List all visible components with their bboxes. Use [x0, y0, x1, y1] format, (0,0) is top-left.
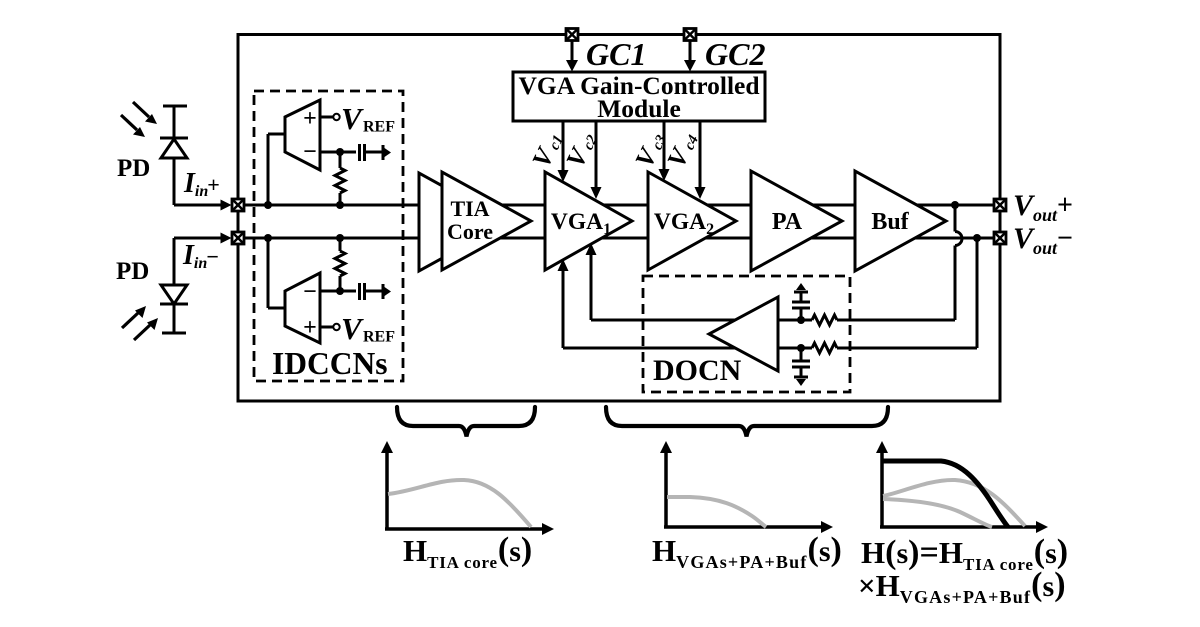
svg-text:VGA1: VGA1 [551, 209, 611, 238]
amplifier VGA1 [545, 172, 632, 270]
wire Vout+ feedback vertical with hop [955, 205, 962, 320]
VGA gain-controlled module box U-GC [513, 71, 765, 123]
wire Vc4 arrow [695, 121, 706, 199]
wire feedback to VGA1 (lower) with arrow [558, 259, 569, 348]
node A3 (R1 bottom on Iin+ line) [336, 201, 344, 209]
wire feedback to VGA1 (upper) with arrow [586, 243, 597, 320]
pad Vout- [994, 232, 1006, 244]
svg-text:Module: Module [597, 94, 681, 123]
resistor R2 (bottom) [335, 238, 345, 291]
graph 2 gray curve [667, 497, 766, 527]
pad Vout+ [994, 199, 1006, 211]
svg-text:PA: PA [772, 209, 803, 235]
node Vout+ tap [951, 201, 959, 209]
pad GC2 [684, 29, 696, 41]
svg-text:GC1: GC1 [586, 36, 646, 72]
amplifier PA [751, 171, 842, 271]
svg-text:PD: PD [116, 258, 149, 285]
svg-text:DOCN: DOCN [653, 354, 742, 387]
IDCCNs dashed box [254, 91, 403, 381]
brace 1 [397, 407, 535, 437]
light arrows into PD2 [122, 306, 158, 340]
svg-text:+: + [303, 106, 317, 132]
photodiode PD1 (top) [160, 106, 188, 205]
resistor R1 (top) [335, 152, 345, 205]
graph 3 axes [876, 441, 1048, 533]
svg-text:VGA2: VGA2 [654, 209, 714, 238]
amplifier VGA2 [648, 172, 736, 270]
node A1 (R1/C1 to U1 minus input) [336, 148, 344, 156]
graph 3 black curve [883, 461, 1008, 527]
node D1 (C3/R3 junction) [797, 316, 805, 324]
graph 3 gray curve (flat) [883, 499, 992, 527]
node B3 (R2 top on Iin- line) [336, 234, 344, 242]
svg-text:REF: REF [363, 329, 395, 346]
svg-text:+: + [303, 315, 317, 341]
amplifier TIA Core (double triangle) [419, 172, 531, 271]
node B1 (R2/C2 to U2 minus input) [336, 287, 344, 295]
svg-text:TIA: TIA [450, 196, 489, 221]
DOCN dashed box [643, 276, 850, 392]
node A2 (U1 output on Iin+ line) [264, 201, 272, 209]
pad Iin- [232, 232, 244, 244]
op-amp U1 (top OTA) [268, 100, 356, 205]
svg-text:REF: REF [363, 119, 395, 136]
capacitor C3 (top, to AC gnd up) [792, 283, 810, 320]
node VREF1 [320, 101, 395, 136]
wire DOCN top line with resistor R3 [591, 315, 955, 325]
capacitor C2 (bottom, to AC gnd) [360, 283, 392, 300]
graph 2 axes [660, 441, 833, 533]
graph 1 axes [381, 441, 554, 535]
svg-text:V: V [341, 311, 364, 346]
node Vout- tap [973, 234, 981, 242]
wire top signal line [238, 204, 1000, 207]
capacitor C4 (bottom, to AC gnd down) [792, 348, 810, 386]
svg-text:IDCCNs: IDCCNs [272, 346, 388, 381]
brace 2 [606, 407, 888, 437]
wire bottom signal line [238, 237, 1000, 240]
pad GC1 [566, 29, 578, 41]
wire GC2 arrow into module [684, 41, 696, 72]
wire DOCN bottom line with resistor R4 [563, 343, 977, 353]
svg-text:−: − [303, 139, 317, 165]
op-amp U3 (DOCN, points left) [709, 297, 778, 371]
amplifier Buf [855, 171, 946, 271]
outer chip box [238, 35, 1000, 402]
wire Vc2 arrow [591, 121, 602, 199]
pad Iin+ [232, 199, 244, 211]
node B2 (U2 output on Iin- line) [264, 234, 272, 242]
svg-text:Core: Core [447, 219, 493, 244]
wire Vc3 arrow [659, 121, 670, 181]
wire Iin+ to pad [174, 204, 228, 207]
op-amp U2 (bottom OTA) [268, 238, 356, 343]
svg-text:V: V [341, 101, 364, 136]
graph 3 gray curve (hump) [883, 480, 1025, 526]
svg-text:−: − [303, 279, 317, 305]
wire GC1 arrow into module [566, 41, 578, 72]
capacitor C1 (top, to AC gnd) [360, 144, 392, 161]
node D2 (C4/R4 junction) [797, 344, 805, 352]
svg-text:Buf: Buf [871, 209, 909, 235]
wire Vc1 arrow [558, 121, 569, 182]
node VREF2 [320, 311, 395, 346]
graph 1 gray curve [388, 480, 531, 527]
svg-text:GC2: GC2 [705, 36, 765, 72]
wire Vout- feedback vertical [976, 238, 979, 348]
light arrows into PD1 [121, 102, 157, 137]
photodiode PD2 (bottom) [160, 238, 188, 333]
svg-text:PD: PD [117, 155, 150, 182]
wire Iin- to pad [174, 237, 228, 240]
